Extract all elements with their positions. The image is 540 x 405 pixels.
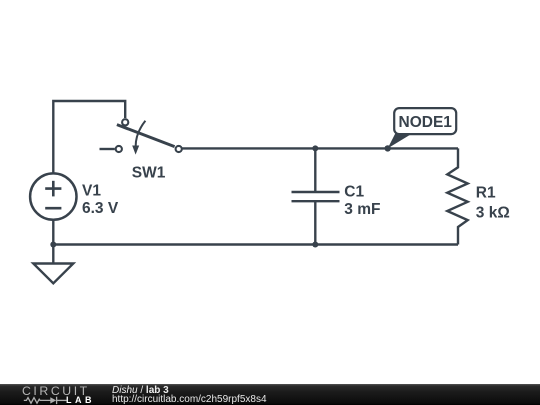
footer bar xyxy=(0,384,540,405)
svg-text:3 mF: 3 mF xyxy=(344,201,380,218)
NODE1 callout tail xyxy=(388,133,413,148)
switch SW1 top terminal circle xyxy=(122,119,128,125)
wire V1 bottom to ground xyxy=(52,220,54,264)
NODE1 callout box xyxy=(394,108,456,134)
svg-text:NODE1: NODE1 xyxy=(399,114,453,131)
svg-text:C1: C1 xyxy=(344,183,364,200)
resistor R1 zigzag xyxy=(447,148,467,244)
wire switch left stub xyxy=(100,148,115,150)
svg-text:6.3 V: 6.3 V xyxy=(82,200,119,217)
wire top-left loop V1 to switch xyxy=(53,101,125,174)
junction dot C1 top xyxy=(312,145,318,151)
svg-text:R1: R1 xyxy=(476,185,496,202)
wire top rail switch to right corner xyxy=(183,147,459,149)
V1 plus sign xyxy=(45,181,61,197)
ground symbol xyxy=(33,264,73,284)
svg-text:V1: V1 xyxy=(82,183,101,200)
junction dot C1 bottom xyxy=(312,242,318,248)
logo waveform: resistor + diode xyxy=(0,384,100,405)
switch SW1 blade xyxy=(117,125,175,147)
junction dot V1 bottom xyxy=(50,242,56,248)
node NODE1 dot xyxy=(385,145,391,151)
url xyxy=(112,394,267,405)
CircuitLab logo xyxy=(22,384,90,398)
svg-text:3 kΩ: 3 kΩ xyxy=(476,204,510,221)
wire bottom rail xyxy=(53,243,458,245)
switch SW1 left terminal circle xyxy=(116,146,122,152)
switch SW1 right terminal circle xyxy=(176,146,182,152)
byline xyxy=(112,386,169,395)
switch SW1 arrow head xyxy=(132,146,139,155)
V1 minus sign xyxy=(45,207,61,210)
svg-text:SW1: SW1 xyxy=(132,165,166,182)
voltage source V1 circle xyxy=(30,173,76,219)
switch SW1 arrow arc xyxy=(136,121,146,148)
capacitor C1 xyxy=(292,148,340,244)
